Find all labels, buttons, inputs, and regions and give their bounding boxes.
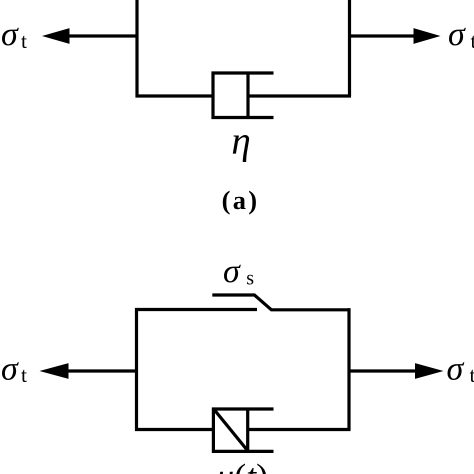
- wire: bottom-left branch segment of model (b): [135, 428, 214, 431]
- svg-text:σ: σ: [1, 351, 19, 388]
- wire: right vertical of model (b): [347, 308, 350, 430]
- dashpot eta: cylinder (left wall, top and bottom plates): [213, 73, 274, 118]
- svg-text:η: η: [231, 120, 250, 163]
- right stress arrow of model (a): [348, 34, 416, 37]
- svg-text:t: t: [471, 29, 474, 53]
- svg-text:t: t: [470, 363, 474, 387]
- svg-text:t: t: [21, 29, 27, 53]
- left stress arrow of model (b): [64, 369, 138, 372]
- dashpot mu(t): piston plate: [246, 408, 249, 454]
- wire: bottom-left branch segment of model (a): [136, 94, 215, 97]
- wire: right vertical of model (a): [348, 0, 351, 97]
- dashpot mu(t): cylinder (left wall, top and bottom plates): [213, 409, 273, 451]
- svg-text:s: s: [246, 267, 254, 289]
- svg-text:t: t: [21, 363, 27, 387]
- dashpot eta: piston rod to right vertical: [248, 94, 351, 97]
- svg-text:σ: σ: [223, 253, 241, 290]
- svg-text:σ: σ: [447, 351, 465, 388]
- wire: left vertical of model (b): [135, 308, 138, 431]
- dashpot mu(t): piston rod to right vertical: [248, 428, 351, 431]
- dashpot eta: piston plate: [246, 72, 249, 120]
- svg-text:μ(t): μ(t): [215, 457, 268, 474]
- svg-text:σ: σ: [1, 16, 19, 53]
- left stress arrow of model (a): [64, 34, 139, 37]
- right stress arrow of model (b): [348, 369, 419, 372]
- friction slider: lower plate (top branch left segment): [135, 308, 257, 311]
- svg-text:(a): (a): [222, 185, 260, 215]
- friction slider: upper plate sliding over and wire to right corner: [212, 295, 350, 310]
- svg-text:σ: σ: [448, 16, 466, 53]
- wire: left vertical of model (a): [135, 0, 138, 98]
- dashpot mu(t): variable-viscosity diagonal stroke: [215, 410, 248, 451]
